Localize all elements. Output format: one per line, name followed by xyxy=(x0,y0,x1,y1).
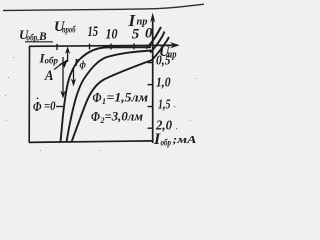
svg-text:1,5: 1,5 xyxy=(158,97,171,112)
svg-text:=1,5лм: =1,5лм xyxy=(107,91,149,105)
svg-text:Ф: Ф xyxy=(91,110,100,125)
svg-text:;мА: ;мА xyxy=(173,135,197,146)
svg-text:Ф: Ф xyxy=(33,100,42,115)
svg-text:1: 1 xyxy=(102,97,106,106)
svg-text:А: А xyxy=(44,68,53,84)
svg-text:обр: обр xyxy=(45,56,59,67)
svg-text:I: I xyxy=(73,57,79,69)
svg-text:ф: ф xyxy=(80,60,87,70)
svg-text:проб: проб xyxy=(62,25,76,36)
svg-text:обр: обр xyxy=(161,138,172,148)
svg-text:0,5: 0,5 xyxy=(156,53,171,68)
svg-text:1,0: 1,0 xyxy=(156,75,171,90)
svg-text:10: 10 xyxy=(106,27,118,43)
svg-text:=0: =0 xyxy=(44,98,56,113)
svg-text:=3,0лм: =3,0лм xyxy=(105,110,144,124)
svg-text:пр: пр xyxy=(137,17,148,28)
svg-text:15: 15 xyxy=(88,24,99,40)
svg-text:0: 0 xyxy=(145,26,153,42)
svg-text:Ф: Ф xyxy=(93,91,102,106)
